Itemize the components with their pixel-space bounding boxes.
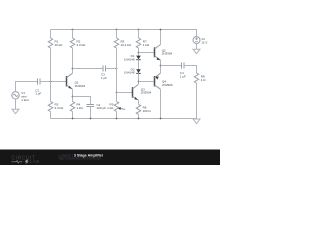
svg-text:1N4148: 1N4148	[124, 57, 135, 61]
resistor R3	[48, 102, 52, 112]
wire Q4 collector down	[160, 89, 162, 118]
transistor Q4	[154, 76, 156, 87]
resistor R5	[116, 29, 118, 31]
wire V2 bottom	[196, 44, 198, 50]
wire V1 bottom	[15, 99, 17, 109]
ground (under V1)	[12, 109, 19, 114]
capacitor C4	[181, 63, 183, 69]
potentiometer R9	[114, 102, 118, 112]
resistor R6	[136, 104, 140, 114]
wire Q2 emitter down	[160, 60, 162, 66]
svg-text:100 Ω: 100 Ω	[143, 109, 152, 113]
svg-text:2N3904: 2N3904	[141, 91, 152, 95]
resistor R4	[70, 102, 74, 112]
resistor R2	[72, 29, 74, 31]
svg-text:LAB: LAB	[30, 159, 40, 164]
svg-text:10.2 kΩ: 10.2 kΩ	[121, 43, 132, 47]
diode D2	[136, 69, 141, 73]
footer bar	[0, 150, 220, 166]
transistor Q1	[66, 76, 68, 87]
svg-text:2N3904: 2N3904	[75, 84, 86, 88]
svg-text:1 kΩ: 1 kΩ	[143, 43, 150, 47]
svg-text:1 kHz: 1 kHz	[21, 98, 29, 102]
node Q2 base junction	[138, 52, 140, 54]
svg-text:1 µF: 1 µF	[101, 76, 107, 80]
svg-text:2N3906: 2N3906	[162, 83, 173, 87]
wire Q3 collector up	[138, 82, 140, 85]
svg-text:10 kΩ: 10 kΩ	[55, 43, 64, 47]
wire Q1 emitter down	[72, 89, 74, 101]
voltage source V2 VCC	[193, 37, 200, 44]
node Q1 emitter junction	[72, 96, 74, 98]
wire top VCC rail	[51, 30, 197, 37]
svg-text:2N3904: 2N3904	[162, 52, 173, 56]
voltage source V1	[12, 92, 19, 99]
wire to Q2 base	[139, 52, 155, 54]
wire to Q4 base	[139, 81, 155, 83]
wire C4 to R8	[184, 66, 197, 74]
node input junction	[50, 81, 52, 83]
svg-text:1N4148: 1N4148	[124, 71, 135, 75]
ground (output, below rail)	[193, 119, 200, 124]
node Q3 base tee	[116, 92, 118, 94]
wire base column down	[116, 93, 118, 102]
wire C1 to Q1 base	[40, 81, 67, 83]
wire C3 to base node	[106, 68, 117, 70]
svg-text:1 kΩ: 1 kΩ	[107, 106, 114, 110]
wire emitter to C2	[73, 97, 91, 105]
ground (under V2)	[193, 49, 200, 54]
svg-text:12 V: 12 V	[201, 40, 207, 44]
node bottom rail junctions	[72, 118, 74, 120]
capacitor C3	[102, 66, 104, 72]
node Q1 collector junction	[72, 68, 74, 70]
wire Q3 emitter down	[138, 100, 140, 104]
svg-text:3.3 kΩ: 3.3 kΩ	[55, 106, 65, 110]
svg-text:1 kΩ: 1 kΩ	[77, 106, 84, 110]
wire to Q3 base	[117, 92, 133, 94]
resistor R1	[50, 30, 52, 39]
transistor Q2	[154, 47, 156, 57]
svg-text:1 µF: 1 µF	[35, 92, 41, 96]
node stage2 base column junction	[116, 68, 118, 70]
node diode bottom junction	[138, 81, 140, 83]
resistor R7	[138, 29, 140, 31]
svg-text:3.3 kΩ: 3.3 kΩ	[77, 43, 87, 47]
transistor Q3	[132, 87, 134, 98]
wire V1 top to input	[16, 82, 38, 92]
wire bottom ground rail	[51, 118, 197, 120]
svg-text:http://circuitlab.com/c/nnsfpf: http://circuitlab.com/c/nnsfpf	[59, 157, 101, 161]
svg-text:1 µF: 1 µF	[180, 74, 186, 78]
resistor R8	[194, 73, 198, 83]
wire Q4 emitter up	[160, 66, 162, 74]
wire Q2 collector to rail	[160, 30, 162, 45]
capacitor C2	[87, 104, 95, 106]
wire output to C4	[161, 65, 182, 67]
capacitor C1	[37, 79, 39, 85]
svg-text:100 µF: 100 µF	[97, 106, 107, 110]
svg-text:4 Ω: 4 Ω	[201, 78, 207, 82]
diode D1	[136, 56, 141, 60]
node output junction	[160, 65, 162, 67]
wire collector to C3	[73, 68, 104, 70]
